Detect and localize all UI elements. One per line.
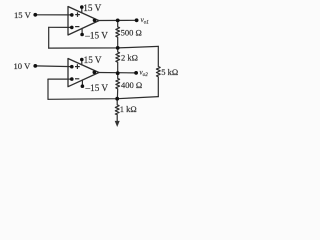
- resistor 5 kohm: [156, 46, 160, 96]
- resistor 2 kohm: [116, 48, 120, 73]
- label op-amp2 minus: [75, 78, 79, 80]
- svg-text:15 V: 15 V: [14, 10, 32, 20]
- node op-amp2 output dot: [93, 71, 97, 75]
- op-amp U2 triangle: [68, 59, 99, 87]
- wire op-amp2 output: [99, 72, 137, 74]
- wire mid rail: [49, 46, 159, 48]
- label op-amp1 minus: [75, 26, 79, 28]
- svg-text:15 V: 15 V: [84, 55, 102, 65]
- junction bottom rail / 1 kohm: [115, 97, 119, 101]
- svg-text:2 kΩ: 2 kΩ: [121, 53, 138, 63]
- resistor 500 ohm: [116, 20, 120, 48]
- label op-amp1 plus: [75, 12, 80, 17]
- wire op-amp1 feedback vertical: [48, 27, 50, 48]
- node op-amp1 +15V terminal: [80, 5, 84, 9]
- wire op-amp2 feedback vertical: [47, 79, 49, 99]
- resistor 400 ohm: [116, 73, 120, 99]
- svg-text:–15 V: –15 V: [84, 31, 108, 41]
- node op-amp2 -15V terminal: [81, 84, 85, 88]
- svg-text:400 Ω: 400 Ω: [121, 80, 142, 90]
- node op-amp2 - input: [70, 77, 74, 81]
- resistor 1 kohm: [115, 99, 119, 122]
- junction output1 / 500 ohm: [116, 19, 120, 23]
- svg-text:vo1: vo1: [141, 16, 150, 25]
- op-amp U2 -15V stub: [81, 80, 83, 86]
- svg-text:15 V: 15 V: [83, 3, 101, 13]
- wire from 10V source to op-amp2 + input: [35, 65, 72, 68]
- node vo2 terminal: [134, 71, 138, 75]
- node op-amp2 +15V terminal: [80, 58, 84, 62]
- op-amp U1 triangle: [68, 7, 99, 36]
- op-amp U2 +15V stub: [81, 60, 83, 65]
- wire op-amp2 - input feedback horizontal: [48, 78, 72, 80]
- svg-text:10 V: 10 V: [14, 61, 32, 71]
- node op-amp2 + input: [70, 65, 74, 69]
- node op-amp1 output dot: [93, 19, 97, 23]
- wire op-amp1 output: [99, 19, 137, 21]
- op-amp U1 +15V stub: [81, 7, 83, 13]
- label op-amp2 plus: [75, 64, 80, 69]
- svg-text:500 Ω: 500 Ω: [121, 28, 142, 38]
- op-amp U1 -15V stub: [81, 28, 83, 34]
- svg-text:5 kΩ: 5 kΩ: [161, 67, 178, 77]
- node op-amp1 - input: [70, 26, 74, 30]
- node 15V source terminal: [33, 13, 37, 17]
- arrow to ground (down arrow below 1 kohm): [115, 121, 120, 127]
- wire op-amp1 - input feedback horizontal: [49, 26, 72, 28]
- svg-text:–15 V: –15 V: [85, 83, 109, 93]
- node op-amp1 -15V terminal: [80, 33, 84, 37]
- wire bottom rail: [48, 97, 158, 100]
- svg-text:1 kΩ: 1 kΩ: [120, 104, 137, 114]
- wire from 15V source to op-amp1 + input: [35, 14, 72, 16]
- node vo1 terminal: [135, 18, 139, 22]
- junction mid rail: [116, 46, 120, 50]
- svg-text:vo2: vo2: [140, 69, 149, 78]
- junction output2 / 400 ohm: [116, 71, 120, 75]
- node op-amp1 + input: [70, 13, 74, 17]
- node 10V source terminal: [33, 64, 37, 68]
